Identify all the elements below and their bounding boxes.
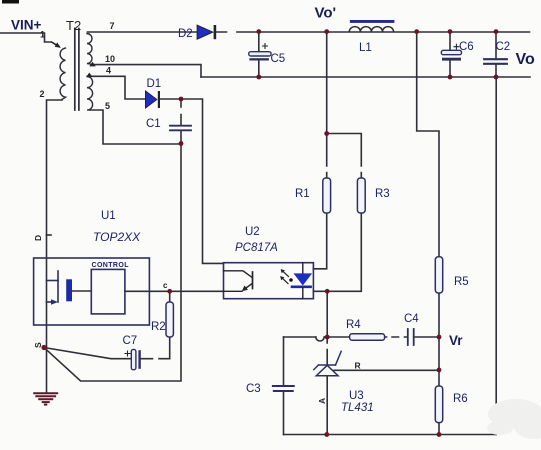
svg-text:R3: R3 — [375, 188, 390, 200]
svg-text:PC817A: PC817A — [235, 242, 278, 254]
wire hop to R4 body — [324, 336, 349, 338]
scan artifact bar top-left — [2, 0, 19, 4]
svg-text:U2: U2 — [245, 226, 260, 238]
wire pin 5 to C1 bottom node — [90, 110, 181, 144]
wire R1 bottom to U2 LED anode — [313, 213, 326, 269]
wire Vr node down to REF node and R6 — [438, 337, 440, 386]
wire TL431 anode to bottom rail — [326, 376, 328, 435]
wire bias return: C1 node down, left, diagonal to S node — [44, 144, 181, 382]
svg-text:TL431: TL431 — [341, 402, 374, 414]
resistor R6 — [435, 386, 442, 423]
svg-text:C5: C5 — [271, 53, 286, 65]
wire LED cathode node down to R4 row — [326, 291, 328, 337]
MOSFET source arrow — [51, 299, 58, 305]
svg-text:D2: D2 — [178, 28, 193, 40]
wire TL431 REF to divider — [334, 369, 439, 371]
U2 LED — [289, 263, 311, 299]
wire hop bump — [316, 337, 324, 341]
svg-text:c: c — [163, 281, 168, 290]
wire C6 stubs — [449, 32, 451, 77]
pin 10 arrow — [89, 62, 95, 67]
wire Vo' node down to R1/R3 split — [326, 32, 328, 134]
svg-text:C6: C6 — [459, 41, 474, 53]
pin D tick — [47, 234, 52, 236]
wire pin 4 to D1 anode — [89, 76, 146, 99]
U1 CONTROL inner box — [91, 269, 125, 314]
wire output return bus — [201, 76, 530, 78]
transformer T2 secondary winding top (pins 7-10) — [87, 34, 92, 65]
transformer T2 primary winding — [60, 48, 65, 100]
capacitor C2 — [484, 59, 507, 64]
wire pin 2 down left rail to MOSFET and ground — [47, 100, 63, 392]
diode D2 — [197, 25, 216, 39]
U3 TL431 shunt regulator — [314, 351, 341, 375]
MOSFET gate bar — [66, 279, 72, 301]
resistor R4 — [350, 334, 385, 340]
wire R2 bottom to C7 (dashed gap) — [141, 337, 170, 359]
wire split to R3 top — [327, 134, 362, 179]
ground — [34, 393, 57, 404]
svg-text:Vr: Vr — [449, 333, 463, 348]
U2 LED light arrows — [281, 270, 289, 284]
wire C3 bottom to bottom rail — [283, 392, 285, 435]
wire C5 stubs — [258, 32, 260, 77]
wire VIN+ input to pin 1 — [0, 33, 59, 47]
op U1 TOP2XX box — [34, 258, 150, 325]
wire R3 bottom to U2 LED cathode row — [313, 213, 361, 291]
transistor Q (TOPSwitch MOSFET) — [47, 271, 59, 302]
capacitor C7 (electrolytic horizontal) — [125, 349, 141, 369]
svg-text:10: 10 — [105, 54, 115, 64]
pin 1 arrow — [52, 42, 58, 46]
svg-text:C1: C1 — [146, 118, 161, 130]
svg-text:U1: U1 — [101, 210, 116, 222]
U2 phototransistor — [224, 271, 253, 292]
wire R1 top (dashed gap) — [326, 134, 328, 179]
svg-text:VIN+: VIN+ — [11, 18, 42, 33]
op-amp U2 PC817A box — [224, 263, 314, 299]
svg-text:CONTROL: CONTROL — [92, 262, 130, 269]
wire TL431 cathode (dashed gap) — [326, 337, 328, 365]
svg-text:L1: L1 — [359, 42, 372, 54]
wire C1 top (dashed gap) — [180, 99, 182, 125]
svg-text:2: 2 — [40, 89, 45, 99]
wire pin 7 to D2 anode (top output bus left) — [88, 31, 198, 33]
transformer T2 secondary winding bottom (pins 4-5) — [87, 77, 93, 111]
svg-text:R6: R6 — [453, 393, 468, 405]
pin 4 arrow — [86, 73, 92, 77]
svg-text:C3: C3 — [246, 383, 261, 395]
svg-text:5: 5 — [105, 101, 110, 111]
wire R2 top stub — [169, 291, 171, 302]
wire D2 cathode to output top bus — [217, 31, 530, 33]
capacitor C4 — [408, 329, 414, 345]
inductor L1 — [349, 20, 394, 32]
svg-text:C4: C4 — [404, 313, 419, 325]
wire C2 column top — [495, 32, 497, 58]
svg-text:R: R — [355, 361, 361, 371]
resistor R3 — [357, 178, 365, 213]
wire bottom rail — [284, 434, 497, 436]
resistor R5 — [435, 257, 442, 293]
capacitor C6 (electrolytic) — [441, 44, 461, 60]
capacitor C3 — [273, 386, 294, 391]
svg-text:D: D — [33, 235, 43, 241]
wire D1 cathode to node and down to U2 collector — [160, 99, 224, 263]
svg-text:C7: C7 — [123, 335, 138, 347]
resistor R2 — [166, 302, 173, 337]
wire R4 row with hop — [284, 336, 316, 338]
wire C1 bottom — [180, 131, 182, 144]
wire right rail up to return bus — [495, 77, 497, 435]
wire gate to control block — [73, 290, 92, 292]
diode D1 — [146, 91, 161, 108]
svg-text:R1: R1 — [295, 188, 310, 200]
wire R6 bottom to bottom rail — [438, 423, 440, 435]
svg-text:R5: R5 — [454, 276, 469, 288]
svg-text:1: 1 — [40, 30, 45, 40]
wire R5 bottom to Vr node — [438, 293, 440, 337]
svg-text:U3: U3 — [349, 390, 364, 402]
svg-text:R4: R4 — [346, 319, 361, 331]
wire C2 column bottom — [495, 65, 497, 78]
capacitor C5 (electrolytic) — [249, 44, 271, 61]
wire C3 branch down — [283, 337, 285, 385]
wire pin 10 to return bus — [91, 65, 201, 77]
wire C4 to Vr node — [414, 336, 439, 338]
U2 emitter arrow — [242, 286, 248, 292]
wire top bus to R5 branch jog — [417, 32, 439, 257]
wire R4 to C4 (dashed) — [385, 336, 408, 338]
svg-text:TOP2XX: TOP2XX — [93, 230, 141, 244]
svg-text:S: S — [33, 342, 43, 348]
svg-text:D1: D1 — [147, 78, 162, 90]
transformer T2 core — [75, 29, 79, 111]
wire C7 left stub and diagonal to S node — [44, 348, 131, 359]
svg-text:T2: T2 — [66, 18, 81, 33]
svg-text:Vo': Vo' — [315, 5, 337, 22]
svg-text:C2: C2 — [496, 41, 511, 53]
svg-text:R2: R2 — [151, 321, 166, 333]
svg-text:A: A — [317, 398, 327, 404]
resistor R1 — [323, 178, 331, 213]
capacitor C1 — [170, 126, 191, 131]
svg-text:7: 7 — [110, 21, 115, 31]
svg-text:Vo: Vo — [516, 51, 535, 68]
wire control C pin to U2 emitter — [125, 290, 224, 292]
watermark remnant bottom right — [487, 399, 541, 439]
svg-text:4: 4 — [106, 66, 111, 76]
